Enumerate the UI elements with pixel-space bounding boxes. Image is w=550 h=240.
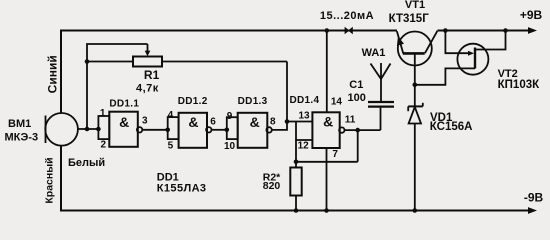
svg-text:13: 13	[298, 111, 310, 122]
arrow +9V	[528, 27, 537, 34]
diode VD1 КС156А (zener)	[414, 85, 416, 107]
node: pin 11 junction	[355, 128, 360, 133]
wire: pin 11 drop to bus	[357, 130, 359, 162]
wire: DD1.3 out elbow up to pin13 node	[272, 122, 287, 130]
svg-text:DD1.1: DD1.1	[109, 99, 139, 110]
svg-text:КТ315Г: КТ315Г	[389, 13, 430, 25]
svg-text:VT1: VT1	[405, 0, 425, 11]
gate DD1.1	[98, 116, 109, 139]
svg-text:DD1.4: DD1.4	[289, 95, 319, 106]
svg-text:КС156А: КС156А	[430, 121, 473, 133]
svg-text:1: 1	[100, 108, 106, 119]
node: R1 left lead junction	[85, 59, 90, 64]
gate DD1.4	[312, 112, 339, 148]
svg-text:4,7к: 4,7к	[136, 83, 159, 95]
svg-text:9: 9	[227, 111, 233, 122]
node: DD1.1 input	[96, 127, 101, 132]
wire: top supply rail right segment with +9V arrow	[438, 30, 531, 32]
pin 11 output wire	[345, 129, 381, 131]
node: pin13 / R1 junction	[285, 119, 290, 124]
VT1 emitter diagonal from left rail	[397, 31, 403, 53]
svg-text:К155ЛА3: К155ЛА3	[157, 182, 207, 194]
R1 wiper arrow	[147, 44, 149, 51]
resistor R1 (trimmer)	[87, 61, 133, 63]
capacitor C1	[368, 101, 394, 103]
svg-text:6: 6	[210, 116, 216, 127]
VT1 base bar	[403, 52, 425, 55]
svg-text:11: 11	[345, 114, 356, 125]
svg-text:Красный: Красный	[44, 157, 56, 203]
svg-text:&: &	[188, 114, 198, 130]
svg-text:&: &	[250, 114, 260, 130]
VT1 collector diagonal to right rail	[425, 31, 438, 54]
wire: top supply rail left segment	[61, 31, 397, 114]
arrow -9V	[528, 207, 537, 214]
svg-text:12: 12	[298, 140, 310, 151]
node: R2 top	[294, 160, 299, 165]
wire: DD1.1 out to DD1.2 in	[142, 129, 167, 131]
antenna WA1	[380, 63, 382, 102]
wire: feedback vertical to R1	[87, 44, 148, 129]
svg-text:WA1: WA1	[362, 47, 386, 59]
svg-text:7: 7	[332, 149, 338, 160]
svg-text:Белый: Белый	[68, 157, 105, 169]
VT2 gate with arrow to +9V rail	[445, 31, 468, 54]
gate DD1.3	[227, 117, 238, 139]
svg-text:Синий: Синий	[46, 55, 60, 93]
wire: R1 right lead down to DD1.4 pin13 node	[286, 62, 288, 122]
svg-text:820: 820	[263, 180, 281, 192]
svg-text:100: 100	[348, 92, 366, 104]
wire: bottom supply rail with -9V arrow	[61, 146, 531, 211]
svg-text:&: &	[323, 114, 333, 130]
svg-text:8: 8	[270, 116, 276, 127]
transistor VT1 КТ315Г	[398, 32, 432, 66]
pin 14 wire to +9V rail	[326, 31, 328, 113]
microphone BM1	[45, 113, 78, 146]
node: DD1.2 input	[165, 128, 170, 133]
wire: mic white output to DD1.1 input	[78, 128, 99, 130]
node: white wire / feedback junction	[85, 127, 90, 132]
svg-text:DD1.3: DD1.3	[238, 96, 268, 107]
svg-text:КП103К: КП103К	[498, 79, 540, 91]
gate DD1.2	[168, 117, 179, 139]
VT2 channel bar	[474, 48, 476, 69]
break symbol (current measuring point)	[345, 27, 350, 35]
pin 13 wire	[287, 121, 312, 123]
svg-text:DD1.2: DD1.2	[178, 96, 208, 107]
svg-text:3: 3	[142, 115, 148, 126]
svg-text:15...20мА: 15...20мА	[320, 10, 374, 22]
node: VT1 base / VD1 / VT2 source	[413, 83, 418, 88]
wire: C1 bottom to pin11 wire	[380, 107, 382, 131]
svg-text:R1: R1	[144, 68, 160, 82]
transistor VT2 КП103К	[457, 44, 488, 75]
node: DD1.3 input	[225, 128, 230, 133]
VT1 base lead down	[414, 53, 416, 84]
svg-text:-9В: -9В	[524, 190, 544, 204]
svg-text:4: 4	[168, 110, 174, 121]
svg-text:+9В: +9В	[520, 8, 543, 22]
resistor R2	[295, 162, 297, 168]
wire: DD1.2 out to DD1.3 in	[212, 129, 227, 131]
pin 7 wire to -9V rail	[326, 148, 328, 211]
svg-text:14: 14	[331, 97, 343, 108]
svg-text:5: 5	[168, 141, 174, 152]
svg-text:BM1: BM1	[8, 118, 31, 130]
svg-text:МКЭ-3: МКЭ-3	[5, 132, 39, 144]
wire: bottom bus	[296, 161, 358, 163]
svg-text:&: &	[119, 114, 129, 130]
svg-text:2: 2	[101, 140, 107, 151]
svg-text:10: 10	[224, 141, 236, 152]
VT2 drain to +9V rail	[475, 31, 506, 50]
svg-text:C1: C1	[349, 79, 363, 91]
pin 12 wire	[296, 140, 312, 162]
VT2 source wire to VT1 base node	[415, 68, 475, 84]
